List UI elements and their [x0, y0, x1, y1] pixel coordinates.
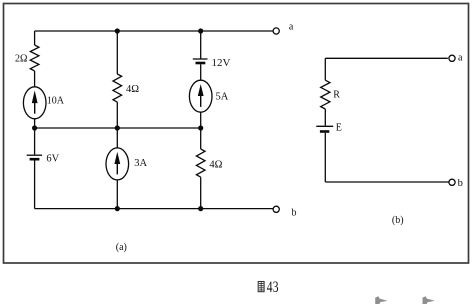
resistor R 4ohm top — [113, 74, 122, 102]
wire bottom horizontal (a) — [35, 208, 273, 210]
junction middle col1 — [32, 125, 37, 130]
terminal a (right circuit) — [449, 55, 455, 61]
svg-text:12V: 12V — [212, 57, 231, 69]
svg-text:10A: 10A — [47, 96, 65, 107]
wire R to E — [324, 109, 326, 126]
resistor R 2ohm — [30, 45, 39, 71]
resistor R (b circuit) — [321, 80, 330, 109]
terminal b (left circuit) — [273, 206, 279, 212]
battery V1 6V plates — [27, 154, 42, 156]
wire col1 top stub — [34, 31, 36, 45]
svg-text:b: b — [292, 208, 297, 219]
grey arrow 1 — [375, 296, 387, 304]
svg-text:E: E — [336, 123, 342, 134]
wire col1 10A to middle — [34, 119, 36, 128]
junction middle col2 — [115, 125, 120, 130]
terminal b (right circuit) — [449, 179, 455, 185]
arrowhead 3A — [114, 152, 120, 164]
grey arrow 2 — [423, 296, 435, 304]
arrowhead 5A — [198, 84, 204, 96]
wire E to bottom — [324, 133, 326, 182]
wire col1 middle to battery — [34, 128, 36, 155]
wire bottom horizontal (b circuit) — [325, 181, 449, 183]
wire col1 between 2ohm and 10A — [34, 71, 36, 87]
terminal a (left circuit) — [273, 28, 279, 34]
current source I1 10A — [23, 87, 46, 119]
svg-text:2Ω: 2Ω — [15, 53, 27, 64]
resistor R 4ohm bottom — [196, 149, 205, 177]
wire col3 top stub — [200, 31, 202, 59]
svg-text:(a): (a) — [116, 242, 127, 253]
svg-text:43: 43 — [267, 278, 279, 296]
current source I2 5A — [189, 80, 212, 112]
svg-text:R: R — [333, 89, 340, 100]
wire col2 top stub — [116, 31, 118, 74]
svg-text:a: a — [458, 52, 463, 63]
junction middle col3 — [198, 125, 203, 130]
svg-text:(b): (b) — [392, 215, 404, 226]
wire col3 12V to 5A — [200, 64, 202, 80]
wire col2 resistor to middle — [116, 102, 118, 128]
junction bottom col3 — [198, 206, 203, 211]
junction top col2 — [115, 28, 120, 33]
wire top horizontal (a) — [35, 30, 273, 32]
wire middle horizontal — [35, 127, 201, 129]
battery E plates — [316, 125, 333, 127]
current source I3 3A — [106, 148, 129, 180]
arrowhead 10A — [32, 90, 38, 103]
wire col2 3A to bottom — [116, 180, 118, 209]
svg-text:4Ω: 4Ω — [209, 160, 222, 171]
wire col3 5A to middle — [200, 112, 202, 128]
wire col2 middle to 3A — [116, 128, 118, 148]
svg-text:6V: 6V — [46, 154, 59, 165]
wire top horizontal (b circuit) — [325, 57, 448, 59]
junction top col3 — [198, 28, 203, 33]
svg-text:5A: 5A — [216, 92, 229, 103]
wire col1 battery to bottom — [34, 161, 36, 209]
battery V2 12V plates — [193, 58, 208, 60]
caption figure 43 glyph — [258, 282, 264, 292]
svg-text:4Ω: 4Ω — [126, 84, 139, 95]
wire left vertical (b circuit) — [324, 58, 326, 80]
svg-text:3A: 3A — [134, 158, 147, 169]
svg-text:a: a — [289, 22, 294, 33]
junction bottom col2 — [115, 206, 120, 211]
wire col3 middle to 4ohm — [200, 128, 202, 149]
svg-text:b: b — [458, 178, 463, 189]
wire col3 4ohm to bottom — [200, 177, 202, 208]
